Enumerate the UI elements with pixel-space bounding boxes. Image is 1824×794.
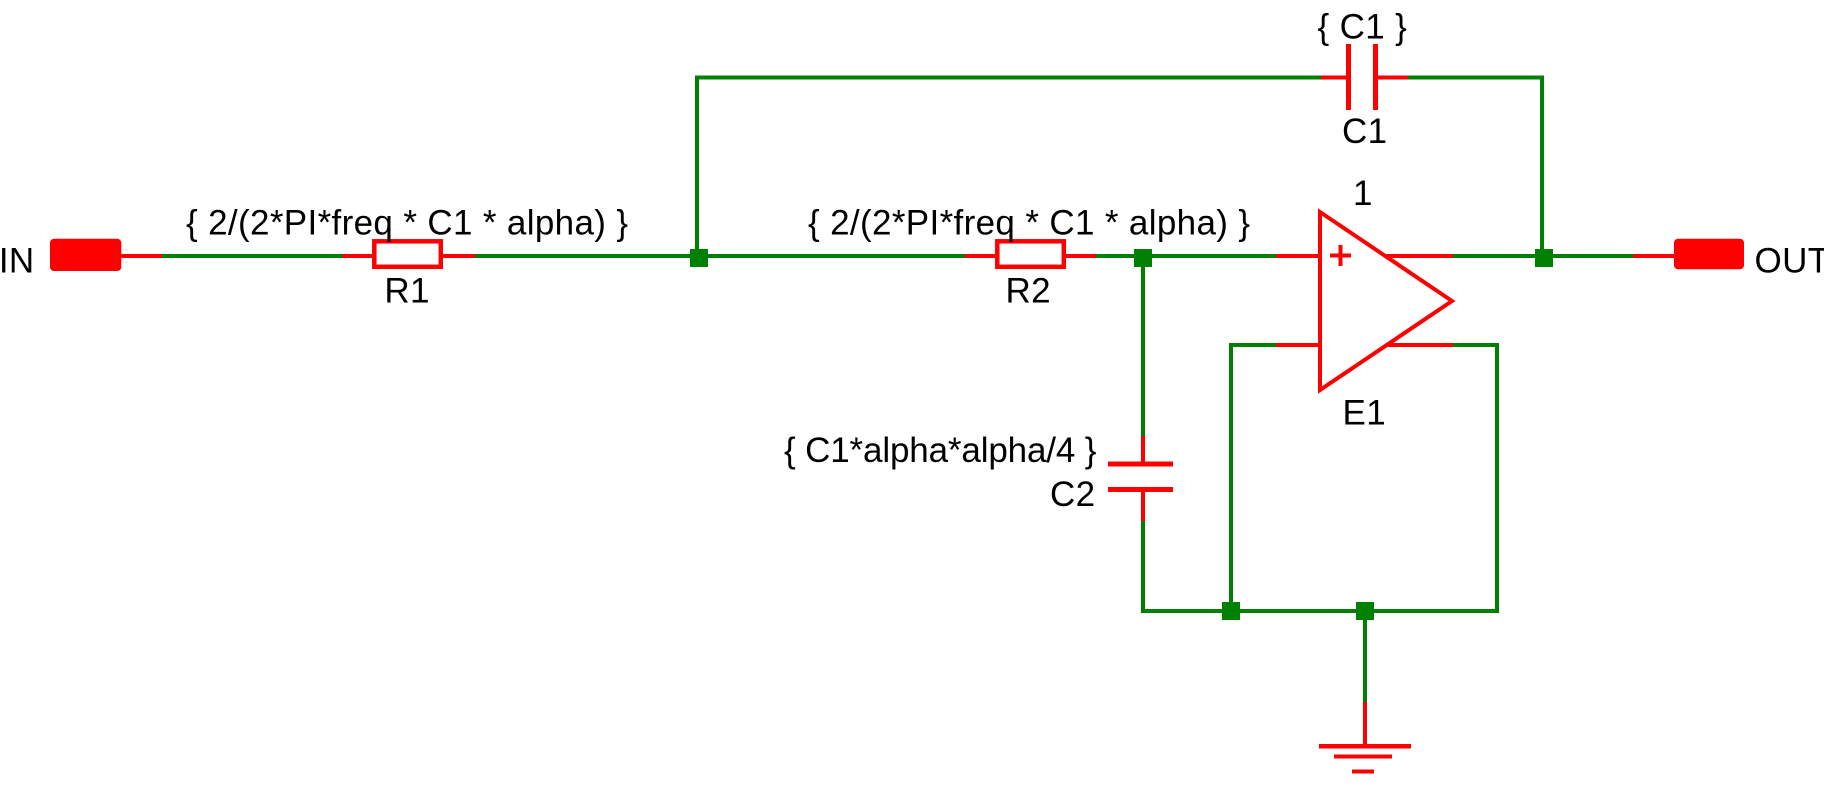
- ground: [1319, 702, 1411, 774]
- wire node A up: [695, 76, 699, 250]
- op-amp E1 (VCVS triangle): [1320, 212, 1452, 390]
- svg-text:E1: E1: [1343, 394, 1387, 433]
- wire node A to R2: [708, 254, 965, 258]
- svg-text:R2: R2: [1006, 272, 1051, 311]
- svg-text:{ C1 }: { C1 }: [1318, 8, 1408, 47]
- svg-text:C1: C1: [1342, 112, 1387, 151]
- capacitor C1: [1321, 44, 1408, 110]
- svg-text:{ C1*alpha*alpha/4 }: { C1*alpha*alpha/4 }: [784, 431, 1097, 470]
- svg-text:R1: R1: [384, 272, 429, 311]
- pin OUT port: [1633, 254, 1674, 258]
- svg-text:1: 1: [1353, 174, 1373, 213]
- wire IN to R1: [162, 254, 342, 258]
- svg-text:IN: IN: [0, 242, 35, 281]
- wire node B to OUT: [1553, 254, 1633, 258]
- wire C1 to top-right corner: [1408, 76, 1544, 80]
- svg-text:{ 2/(2*PI*freq * C1 * alpha) }: { 2/(2*PI*freq * C1 * alpha) }: [186, 204, 628, 243]
- svg-text:OUT: OUT: [1755, 242, 1824, 281]
- pin E1 output plus: [1384, 254, 1453, 258]
- wire to E1 minus input: [1229, 343, 1276, 347]
- wire node C to E1 plus input: [1152, 254, 1276, 258]
- port IN: [50, 239, 162, 271]
- resistor R2: [965, 241, 1096, 266]
- wire top horizontal: [695, 76, 1321, 80]
- wire R2 to node C: [1096, 254, 1134, 258]
- svg-text:{ 2/(2*PI*freq * C1 * alpha) }: { 2/(2*PI*freq * C1 * alpha) }: [808, 204, 1250, 243]
- wire bottom rail: [1141, 609, 1499, 613]
- wire E1 output minus to right corner: [1453, 343, 1499, 347]
- wire node E down: [1363, 620, 1367, 702]
- resistor R1: [342, 241, 475, 266]
- wire top-right corner down to node B: [1540, 76, 1544, 250]
- node B: [1535, 249, 1553, 267]
- capacitor C2: [1108, 436, 1173, 522]
- wire R1 to node A: [475, 254, 690, 258]
- node C: [1134, 249, 1152, 267]
- port OUT: [1674, 239, 1744, 269]
- svg-text:C2: C2: [1050, 475, 1095, 514]
- pin E1 minus input: [1276, 343, 1320, 347]
- node E: [1356, 602, 1374, 620]
- pin E1 output minus: [1388, 343, 1453, 347]
- wire node C down to C2: [1141, 267, 1145, 436]
- wire node D up to E1 minus input: [1229, 343, 1233, 602]
- pin E1 plus input: [1276, 254, 1320, 258]
- node D: [1222, 602, 1240, 620]
- wire E1 output to node B: [1453, 254, 1535, 258]
- plus mark inside E1: [1330, 245, 1351, 266]
- wire C2 down to bottom rail: [1141, 521, 1145, 613]
- node A: [690, 249, 708, 267]
- wire right side down: [1495, 343, 1499, 613]
